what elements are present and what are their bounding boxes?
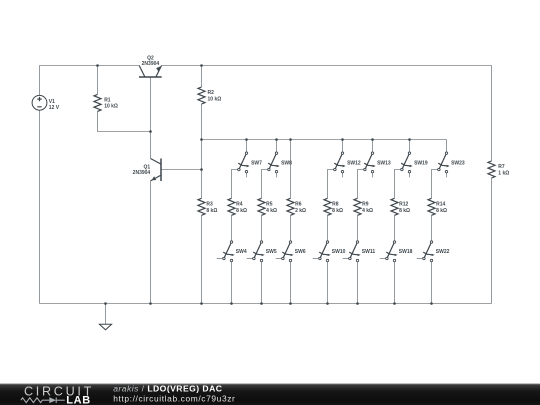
ground	[99, 304, 111, 330]
svg-text:SW18: SW18	[399, 249, 413, 255]
resistor R2 10 k&#937;	[198, 66, 221, 140]
svg-text:arakis / LDO(VREG) DAC: arakis / LDO(VREG) DAC	[113, 384, 222, 394]
resistor R9 4 k&#937;	[354, 198, 373, 215]
junction ground at bus	[104, 302, 107, 305]
voltage source V1 12 V	[32, 95, 60, 111]
junction switch SW18 at ground bus	[393, 302, 396, 305]
svg-text:10 kΩ: 10 kΩ	[104, 104, 118, 110]
junction switch SW10 at ground bus	[326, 302, 329, 305]
svg-text:12 V: 12 V	[49, 105, 60, 111]
svg-text:http://circuitlab.com/c79u3zr: http://circuitlab.com/c79u3zr	[113, 394, 235, 404]
wire V1 bottom lead down left side	[39, 110, 41, 303]
junction switch SW5 at ground bus	[260, 302, 263, 305]
resistor R1 10 k&#937;	[94, 66, 151, 132]
svg-text:R7: R7	[498, 164, 505, 170]
svg-text:8 kΩ: 8 kΩ	[436, 208, 447, 214]
svg-text:SW23: SW23	[451, 160, 465, 166]
svg-text:R1: R1	[104, 97, 111, 103]
wire Q2 base to Q1 collector	[150, 77, 152, 159]
svg-text:2N3904: 2N3904	[133, 170, 151, 176]
resistor R14 8 k&#937;	[428, 198, 447, 215]
switch SW18	[380, 215, 413, 303]
wire switch SW7 to resistor R4	[232, 170, 238, 199]
svg-text:SW19: SW19	[414, 160, 428, 166]
wire bus to resistor R6	[290, 140, 292, 199]
junction R1 to Q2 base line	[149, 130, 152, 133]
junction switch SW7 at bus	[245, 138, 248, 141]
switch SW4	[217, 215, 247, 303]
svg-text:SW11: SW11	[362, 249, 376, 255]
switch SW11	[343, 215, 376, 303]
svg-text:SW12: SW12	[347, 160, 361, 166]
svg-text:2N3904: 2N3904	[142, 61, 160, 67]
wire top rail from V1 to Q2 collector	[40, 65, 140, 67]
svg-text:R3: R3	[206, 201, 213, 207]
wire bottom ground bus	[40, 303, 492, 305]
wire top rail from Q2 emitter to R7	[162, 65, 492, 67]
switch SW19	[401, 140, 428, 178]
svg-text:SW13: SW13	[377, 160, 391, 166]
svg-text:R8: R8	[332, 201, 339, 207]
wire switch SW8 to resistor R5	[262, 170, 268, 199]
CircuitLab logo resistor squiggle and diode	[21, 397, 65, 403]
switch SW8	[268, 140, 292, 178]
resistor R7 1 k&#937;	[488, 66, 509, 304]
svg-text:V1: V1	[49, 99, 55, 105]
svg-text:R14: R14	[436, 201, 445, 207]
junction R1 top at rail	[96, 64, 99, 67]
resistor R12 8 k&#937;	[391, 198, 410, 215]
CircuitLab banner background	[0, 384, 540, 405]
wire switch SW19 to resistor R12	[395, 170, 401, 199]
wire Q1 emitter to ground bus	[150, 181, 152, 304]
switch SW12	[334, 140, 361, 178]
switch SW10	[313, 215, 346, 303]
junction switch SW19 at bus	[408, 138, 411, 141]
svg-text:R9: R9	[362, 201, 369, 207]
svg-text:8 kΩ: 8 kΩ	[399, 208, 410, 214]
svg-text:8 kΩ: 8 kΩ	[236, 208, 247, 214]
junction switch SW11 at ground bus	[356, 302, 359, 305]
svg-text:SW22: SW22	[436, 249, 450, 255]
junction R3 bottom at ground bus	[200, 302, 203, 305]
junction Q1 emitter at ground bus	[149, 302, 152, 305]
resistor R5 4 k&#937;	[258, 198, 277, 215]
transistor Q2 2N3904	[139, 56, 162, 77]
svg-text:R4: R4	[236, 201, 243, 207]
resistor R6 2 k&#937;	[287, 198, 306, 215]
svg-text:8 kΩ: 8 kΩ	[332, 208, 343, 214]
svg-text:8 kΩ: 8 kΩ	[206, 208, 217, 214]
switch SW13	[364, 140, 391, 178]
junction switch SW4 at ground bus	[230, 302, 233, 305]
switch SW22	[417, 215, 450, 303]
svg-text:2 kΩ: 2 kΩ	[295, 208, 306, 214]
transistor Q1 2N3904	[133, 159, 161, 182]
junction switch SW8 at bus	[275, 138, 278, 141]
svg-text:SW7: SW7	[251, 160, 262, 166]
svg-text:SW4: SW4	[236, 249, 247, 255]
junction R2 bottom / bus / R3	[200, 138, 203, 141]
svg-text:10 kΩ: 10 kΩ	[208, 96, 222, 102]
junction switch SW13 at bus	[371, 138, 374, 141]
svg-text:SW6: SW6	[295, 249, 306, 255]
resistor R8 8 k&#937;	[324, 198, 343, 215]
svg-text:LAB: LAB	[66, 394, 91, 405]
svg-text:SW5: SW5	[266, 249, 277, 255]
svg-text:4 kΩ: 4 kΩ	[362, 208, 373, 214]
switch SW23	[438, 140, 465, 178]
resistor R4 8 k&#937;	[228, 198, 247, 215]
wire Q1 base to feedback node	[161, 169, 202, 171]
svg-text:R6: R6	[295, 201, 302, 207]
svg-text:R12: R12	[399, 201, 408, 207]
svg-text:1 kΩ: 1 kΩ	[498, 171, 509, 177]
junction R6 column at bus	[289, 138, 292, 141]
wire switch bus	[202, 139, 447, 141]
wire switch SW13 to resistor R9	[358, 170, 364, 199]
junction switch SW12 at bus	[341, 138, 344, 141]
svg-text:R2: R2	[208, 90, 215, 96]
svg-text:R5: R5	[266, 201, 273, 207]
resistor R3 8 k&#937;	[198, 140, 217, 304]
junction switch SW22 at ground bus	[430, 302, 433, 305]
junction R2 top at rail	[200, 64, 203, 67]
junction Q1 base / R3 column	[200, 168, 203, 171]
switch SW7	[238, 140, 262, 178]
wire switch SW23 to resistor R14	[432, 170, 438, 199]
junction switch SW6 at ground bus	[289, 302, 292, 305]
wire V1 top lead	[39, 66, 41, 96]
svg-text:4 kΩ: 4 kΩ	[266, 208, 277, 214]
switch SW5	[247, 215, 277, 303]
svg-text:SW10: SW10	[332, 249, 346, 255]
wire switch SW12 to resistor R8	[328, 170, 334, 199]
switch SW6	[276, 215, 306, 303]
